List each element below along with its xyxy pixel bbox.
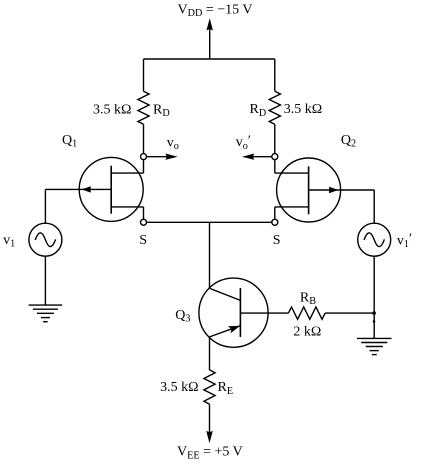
VEE arrow [206, 404, 213, 443]
wire left resistor to vo node [143, 124, 145, 153]
ground left [29, 305, 63, 322]
node dot on right ground wire [373, 320, 376, 323]
wire v1' to right ground [373, 256, 375, 338]
svg-text:3.5 kΩ: 3.5 kΩ [160, 380, 198, 395]
node S left [141, 219, 147, 225]
transistor Q1 [45, 157, 143, 221]
wire Q1 gate down to v1 [44, 189, 46, 223]
node vo' terminal [272, 154, 278, 160]
resistor RD right [269, 91, 280, 124]
wire vo' node to Q2 drain [274, 160, 276, 174]
svg-text:2 kΩ: 2 kΩ [293, 324, 321, 339]
source v1' [358, 223, 391, 256]
resistor RE [204, 370, 215, 404]
junction RB / v1' wire [372, 311, 376, 315]
wire center tap to Q3 collector [209, 222, 211, 288]
node S right [272, 219, 278, 225]
wire Q3 base to RB [240, 312, 288, 314]
vo arrow [147, 154, 178, 160]
resistor RD left [138, 91, 149, 124]
ground right [357, 338, 392, 354]
transistor Q2 [275, 158, 374, 222]
node vo terminal [141, 154, 147, 160]
wire vo node to Q1 drain [143, 160, 145, 174]
wire right resistor to vo' node [274, 124, 276, 153]
vo' arrow [242, 154, 272, 160]
wire Q3 emitter to RE [209, 337, 211, 370]
wire Q1 source to S node [143, 207, 145, 219]
svg-text:3.5 kΩ: 3.5 kΩ [93, 102, 131, 117]
wire source rail [147, 221, 272, 223]
svg-text:S: S [273, 233, 281, 248]
wire v1 to left ground [44, 256, 46, 305]
resistor RB [288, 307, 325, 319]
wire right drain column [274, 59, 276, 91]
VDD arrow [206, 18, 213, 59]
wire Q2 source to S node [274, 207, 276, 219]
svg-text:3.5 kΩ: 3.5 kΩ [284, 102, 322, 117]
wire top rail [144, 58, 275, 60]
wire RB to right ground column [325, 312, 374, 314]
transistor Q3 [199, 278, 268, 347]
wire left drain column [143, 59, 145, 91]
source v1 [29, 223, 62, 256]
svg-text:VEE = +5 V: VEE = +5 V [177, 445, 243, 462]
svg-text:S: S [139, 233, 147, 248]
wire Q2 gate down to v1' [373, 190, 375, 223]
